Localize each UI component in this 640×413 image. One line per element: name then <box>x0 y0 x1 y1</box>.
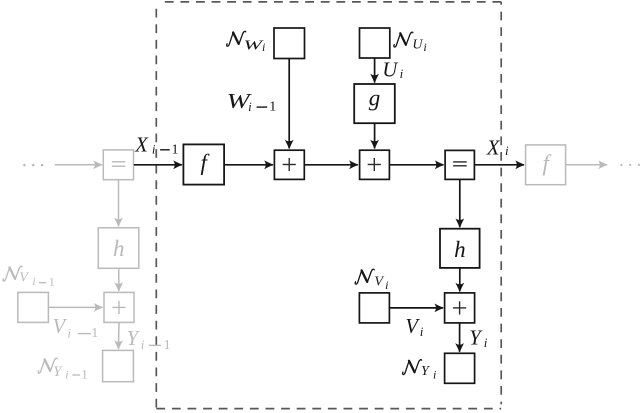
gray box + (i-1) <box>104 292 134 322</box>
gray box h (i-1) <box>98 228 139 268</box>
svg-text:1: 1 <box>269 100 276 115</box>
svg-text:i: i <box>400 66 404 81</box>
label N_{V_i} <box>355 269 374 284</box>
wire + down to N_Y square <box>459 323 461 352</box>
gray label N_{Y_{i-1}} <box>38 358 57 373</box>
box h <box>440 229 480 268</box>
svg-text:V: V <box>19 270 29 285</box>
wire + to = <box>389 164 443 166</box>
gray wire f to right dots <box>566 164 607 166</box>
gray wire h down to + <box>118 268 120 291</box>
svg-text:i: i <box>420 324 424 339</box>
svg-text:X: X <box>486 137 501 159</box>
wire f to + <box>224 164 273 166</box>
svg-text:1: 1 <box>91 326 98 341</box>
svg-text:1: 1 <box>49 275 55 289</box>
svg-text:i: i <box>32 276 35 288</box>
wire N_V square to + <box>389 307 443 309</box>
svg-text:V: V <box>374 274 384 289</box>
gray wire N_V square to + <box>48 306 102 308</box>
svg-text:Y: Y <box>421 364 431 379</box>
square N_Y sink <box>445 353 475 383</box>
wire X_(i-1): gray = to f <box>134 164 182 166</box>
+ glyph lower <box>453 301 466 314</box>
wire + to + <box>304 164 358 166</box>
svg-text:i: i <box>433 368 436 382</box>
box f <box>183 144 224 184</box>
box + second <box>360 150 390 179</box>
gray left dots <box>23 164 43 167</box>
wire g down to + <box>374 123 376 148</box>
svg-text:1: 1 <box>172 143 179 158</box>
gray box f (i+1) <box>526 145 566 185</box>
svg-text:X: X <box>134 135 149 157</box>
black wires <box>134 58 524 352</box>
svg-text:f: f <box>201 150 211 175</box>
svg-text:i: i <box>67 325 71 340</box>
box + lower <box>445 293 475 323</box>
svg-text:h: h <box>454 237 466 262</box>
svg-text:i: i <box>423 40 426 54</box>
svg-text:i: i <box>152 142 156 157</box>
svg-text:Y: Y <box>53 364 63 380</box>
gray wire + down to N_Y square <box>117 322 120 349</box>
svg-text:h: h <box>113 236 125 261</box>
wire = down to h <box>459 179 461 227</box>
svg-text:1: 1 <box>164 338 171 353</box>
svg-text:i: i <box>141 337 145 352</box>
gray label N_{V_{i-1}} <box>3 266 22 281</box>
+ glyph second <box>368 158 381 171</box>
svg-text:i: i <box>65 368 68 382</box>
svg-text:i: i <box>505 143 509 158</box>
wire N_U square down to g <box>374 58 376 83</box>
svg-text:V: V <box>405 316 420 338</box>
svg-text:g: g <box>369 86 381 111</box>
svg-text:i: i <box>484 335 488 350</box>
gray + glyph <box>112 301 125 314</box>
svg-text:U: U <box>382 60 398 82</box>
square N_V source <box>359 293 389 323</box>
plate: dashed border rectangle <box>156 2 501 409</box>
box + first <box>274 150 304 179</box>
svg-text:i: i <box>385 278 388 292</box>
gray right dots <box>620 164 640 166</box>
square N_W source <box>274 28 305 59</box>
+ glyph first <box>283 158 296 171</box>
gray wire = down to h <box>118 180 120 226</box>
gray = glyph <box>112 162 125 166</box>
= glyph <box>453 162 467 166</box>
gray box = (i-1) <box>103 150 133 180</box>
svg-text:1: 1 <box>81 367 88 382</box>
gray square N_V (i-1) source <box>18 292 49 322</box>
wire h down to + <box>459 268 461 292</box>
gray square N_Y (i-1) sink <box>103 350 134 381</box>
box = <box>445 150 474 179</box>
wire N_W square down to + <box>288 59 290 149</box>
square N_U source <box>360 28 390 58</box>
svg-text:V: V <box>53 316 68 338</box>
label N_{Y_i} <box>403 360 422 375</box>
svg-text:f: f <box>543 150 553 175</box>
box g <box>354 84 395 123</box>
svg-text:U: U <box>412 37 423 52</box>
svg-text:Y: Y <box>127 328 141 350</box>
label N_{U_i} <box>394 32 413 47</box>
svg-text:i: i <box>248 99 252 114</box>
wire X_i: = to gray f <box>475 164 524 166</box>
svg-text:Y: Y <box>469 328 483 350</box>
label N_{W_i} <box>227 31 246 46</box>
svg-text:i: i <box>262 40 265 54</box>
svg-text:W: W <box>244 38 265 53</box>
gray wire dots to = <box>55 164 102 166</box>
